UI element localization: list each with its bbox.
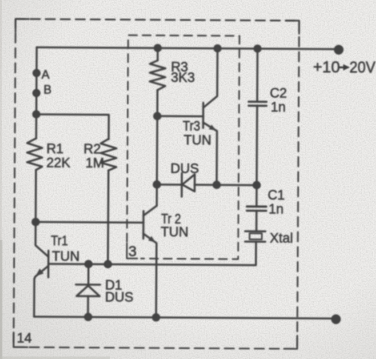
transistor Tr3 TUN [182, 48, 217, 185]
svg-text:20V: 20V [349, 59, 375, 76]
wire: Tr1 base rail (to D1, R2, Xtal) [48, 264, 255, 265]
svg-text:Tr3: Tr3 [183, 119, 201, 134]
svg-text:Xtal: Xtal [270, 230, 293, 245]
wire: left vertical branch [35, 47, 38, 138]
scan edge shading [0, 0, 2, 359]
label +10->20V [313, 59, 376, 76]
svg-text:14: 14 [17, 330, 33, 345]
junction: Tr3 base node [154, 113, 160, 119]
junction: Tr1 collector / R1 [32, 219, 38, 225]
junction: R2 bottom [105, 261, 111, 267]
wire: bottom rail [34, 317, 332, 319]
junction: diode row left [154, 181, 160, 187]
junction: C2 top on rail [254, 46, 260, 52]
wire: R3 bottom / Tr3 base column [156, 90, 159, 206]
junction: Tr3 emitter / diode right [213, 182, 219, 188]
junction: D1 bottom [85, 314, 91, 320]
svg-text:22K: 22K [46, 155, 70, 170]
resistor R2 1M [83, 139, 116, 171]
wire: to Tr3 base [157, 115, 203, 117]
junction: D1 top [85, 261, 91, 267]
resistor R1 22K [27, 138, 71, 170]
resistor R3 3K3 [150, 48, 195, 90]
transistor Tr1 TUN [34, 222, 80, 317]
svg-text:A: A [41, 68, 49, 82]
svg-text:DUS: DUS [105, 290, 134, 305]
junction: C1/C2 node [253, 182, 259, 188]
svg-text:+10: +10 [313, 59, 340, 76]
svg-text:1M: 1M [85, 155, 104, 170]
diode DUS (between Tr3 emitter and Tr2 collector) [157, 161, 217, 197]
wire: branch to R2 [36, 114, 109, 139]
node A [33, 70, 39, 76]
junction: Tr2 emitter bottom [153, 314, 159, 320]
capacitor C2 1n [248, 49, 287, 186]
svg-text:1n: 1n [268, 201, 283, 216]
svg-text:Tr1: Tr1 [51, 233, 68, 248]
wire: R1 bottom to collector junction [35, 170, 37, 222]
svg-text:B: B [44, 83, 52, 97]
capacitor C1 1n [247, 185, 285, 231]
svg-text:TUN: TUN [184, 133, 212, 148]
svg-text:3K3: 3K3 [171, 70, 195, 85]
svg-text:C1: C1 [268, 187, 285, 202]
svg-text:TUN: TUN [161, 224, 189, 239]
svg-text:3: 3 [128, 243, 136, 260]
svg-text:DUS: DUS [170, 161, 199, 176]
svg-text:TUN: TUN [52, 249, 80, 264]
wire: R2 bottom to base rail [107, 170, 110, 264]
terminal bottom [332, 315, 341, 324]
svg-text:1n: 1n [271, 99, 286, 114]
inner dashed enclosure (block 3) [127, 35, 240, 259]
node B [33, 90, 39, 96]
junction: Tr3 collector on rail [214, 45, 220, 51]
junction: R1/R2 top feed [33, 111, 39, 117]
crystal Xtal [245, 230, 293, 265]
terminal +10-20V [334, 45, 343, 54]
transistor Tr2 TUN [143, 206, 189, 318]
outer dashed enclosure (figure boundary) [14, 19, 300, 349]
wire: to Tr2 base [36, 221, 144, 224]
diode D1 DUS [76, 264, 134, 317]
wire: top supply rail [37, 47, 335, 49]
junction: R3 top on rail [155, 45, 161, 51]
wire: diode row to C column [217, 184, 257, 186]
